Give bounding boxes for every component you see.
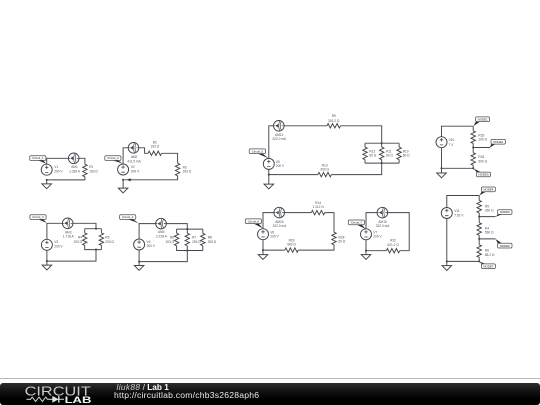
label V10 value xyxy=(449,138,455,147)
junction C2 bottom xyxy=(122,179,124,181)
label R12 value xyxy=(369,149,376,157)
resistor R1 (element body) xyxy=(83,164,87,177)
label R2 value xyxy=(151,141,160,149)
resistor R11 (element body) xyxy=(380,147,384,160)
svg-text:LAB: LAB xyxy=(65,395,92,405)
voltage source V5 xyxy=(263,158,274,169)
resistor R9 (element body) xyxy=(327,124,341,128)
wire C2 bottom xyxy=(123,176,178,188)
net flag NODE5 xyxy=(496,210,513,217)
voltage source V10 xyxy=(436,137,447,148)
net flag NODE4 xyxy=(479,187,495,195)
resistor R5 (element body) xyxy=(99,233,103,246)
net flag Circuit_1 xyxy=(30,156,47,164)
wire C5 top left xyxy=(269,126,327,159)
resistor R6 (element body) xyxy=(477,245,481,258)
junction NA gnd xyxy=(440,167,442,169)
label R5 value xyxy=(105,236,114,244)
resistor R13 (element body) xyxy=(318,172,332,176)
wire C4 top xyxy=(139,224,187,240)
wire C6 top left xyxy=(263,213,311,229)
label R4 value xyxy=(485,227,494,235)
junction C3 top xyxy=(95,228,97,230)
wire C6 top right xyxy=(325,213,334,233)
label V4 value xyxy=(147,240,156,248)
label AM4 value xyxy=(156,230,168,238)
resistor R14 (element body) xyxy=(311,210,325,214)
net flag NODE3 xyxy=(473,168,490,176)
junction C4 bottom bus xyxy=(186,249,188,251)
label V1 value xyxy=(54,165,63,173)
wire C3 bus bottom xyxy=(85,245,102,249)
label V11 value xyxy=(454,209,464,217)
resistor R10 (element body) xyxy=(397,147,401,160)
ground C5 xyxy=(264,184,274,189)
label R33 value xyxy=(478,133,487,141)
label AM3 value xyxy=(63,230,75,238)
wire NB top xyxy=(447,196,479,208)
canvas / footer separator line xyxy=(0,378,540,379)
label R34 value xyxy=(478,155,487,163)
resistor R29 (element body) xyxy=(285,248,299,252)
label R7 value xyxy=(192,236,201,244)
voltage source V6 xyxy=(258,229,269,240)
label AM2 value xyxy=(127,155,141,164)
wire C7 bottom left xyxy=(366,240,386,255)
ground C1 xyxy=(42,184,52,189)
wire C5 bottom right xyxy=(331,163,381,175)
logo diode wire xyxy=(52,398,64,400)
net flag Circuit_6 xyxy=(245,219,262,228)
net flag Circuit_7 xyxy=(348,220,365,229)
junction C5 gnd xyxy=(268,174,270,176)
label V3 value xyxy=(54,240,63,248)
wire C2 top xyxy=(123,148,148,164)
ground C4 xyxy=(134,266,144,271)
label R6 value xyxy=(485,249,495,257)
wire C2 right upper xyxy=(162,153,178,163)
net flag Circuit_4 xyxy=(120,215,139,224)
wire C5 bus top xyxy=(365,143,399,147)
junction NODE6 xyxy=(478,238,480,240)
ground C3 xyxy=(42,265,52,270)
ground NB xyxy=(442,266,452,271)
ammeter AM16 xyxy=(274,207,285,218)
label R3 value xyxy=(183,165,192,173)
voltage source V2 xyxy=(118,164,129,175)
net flag NODE7 xyxy=(479,262,495,269)
ground C6 xyxy=(258,255,268,260)
label V6 value xyxy=(270,230,279,238)
wire C5 bus bottom xyxy=(365,160,399,164)
voltage source V3 xyxy=(41,239,52,250)
resistor R4 (element body) xyxy=(82,233,86,246)
wire C4 bus bottom xyxy=(177,246,203,251)
net flag Circuit_3 xyxy=(30,215,47,223)
junction C4 gnd xyxy=(138,261,140,263)
label AM11 value xyxy=(272,133,287,141)
resistor R28 (element body) xyxy=(332,232,336,245)
ground C2 xyxy=(118,188,128,193)
junction C7 gnd xyxy=(365,250,367,252)
resistor R8 (element body) xyxy=(201,233,205,246)
label R13 value xyxy=(320,163,329,171)
voltage source V7 xyxy=(361,229,372,240)
label V5 value xyxy=(276,160,285,168)
voltage source V1 xyxy=(41,164,52,175)
resistor R34 (element body) xyxy=(471,153,475,166)
net flag Circuit_2 xyxy=(105,156,123,164)
wire C5 top right xyxy=(341,126,382,143)
label R8 value xyxy=(208,236,217,244)
net flag NODE6 xyxy=(496,239,513,248)
junction NODE5 xyxy=(478,216,480,218)
label AM15 value xyxy=(376,220,391,228)
junction NODE7 xyxy=(478,260,480,262)
ammeter AM11 xyxy=(274,121,285,132)
wire C6 bottom right xyxy=(298,245,334,250)
net flag Circuit_5 xyxy=(249,149,268,158)
resistor R12 (element body) xyxy=(363,147,367,160)
wire C5 bottom left xyxy=(269,169,318,184)
junction C3 bottom bus xyxy=(95,249,97,251)
wire NA top xyxy=(442,126,474,137)
resistor R3 (element body) xyxy=(175,163,179,176)
junction NODE3 xyxy=(472,167,474,169)
wire C1 top loop xyxy=(47,158,85,164)
wire C4 bus top xyxy=(177,229,203,233)
ammeter AM15 xyxy=(377,207,388,218)
voltage source V11 xyxy=(441,208,452,219)
junction C1 bottom xyxy=(46,179,48,181)
label AM16 value xyxy=(273,220,288,228)
label R5 value xyxy=(485,204,494,212)
junction NB gnd xyxy=(446,260,448,262)
wire NB node5 xyxy=(479,196,495,217)
label R10 value xyxy=(403,149,410,157)
label R6 value xyxy=(165,236,174,244)
current direction arrow C2 xyxy=(127,178,131,181)
wire C3 bottom xyxy=(47,250,96,266)
label R11 value xyxy=(386,149,393,157)
label V2 value xyxy=(131,165,140,173)
resistor R5 (element body) xyxy=(477,200,481,213)
logo resistor zigzag xyxy=(27,397,65,401)
footer bar xyxy=(0,383,540,405)
byline text xyxy=(114,383,259,399)
wire C7 loop right xyxy=(366,213,409,251)
logo diode bar xyxy=(58,396,60,403)
junction NODE2 xyxy=(472,146,474,148)
ammeter AM2 xyxy=(128,143,139,154)
wire C3 top xyxy=(47,223,96,239)
logo diode triangle xyxy=(52,396,58,403)
resistor R4 (element body) xyxy=(477,223,481,236)
label AM1 value xyxy=(69,165,81,173)
resistor R6 (element body) xyxy=(174,233,178,246)
label R29 value xyxy=(287,238,296,246)
junction C3 gnd xyxy=(46,260,48,262)
wire C3 bus top xyxy=(85,229,102,233)
junction C5 bottom bus xyxy=(381,162,383,164)
ground NA xyxy=(437,173,447,178)
wire NA bottom xyxy=(442,148,474,174)
resistor R2 (element body) xyxy=(148,151,162,155)
junction C6 gnd xyxy=(262,249,264,251)
ammeter AM3 xyxy=(62,218,73,229)
ground C7 xyxy=(361,255,371,260)
resistor R32 (element body) xyxy=(386,249,400,253)
label V7 value xyxy=(373,230,382,238)
label R14 value xyxy=(312,201,324,209)
junction C4 top xyxy=(186,228,188,230)
wire C4 bottom xyxy=(139,250,187,266)
label R9 value xyxy=(328,114,340,123)
voltage source V4 xyxy=(134,239,145,250)
net flag NODE2 xyxy=(490,139,506,147)
net flag NODE1 xyxy=(473,117,489,126)
label R28 value xyxy=(339,236,346,244)
resistor R33 (element body) xyxy=(471,131,475,144)
resistor R7 (element body) xyxy=(185,233,189,246)
label R32 value xyxy=(387,239,399,247)
label R4 value xyxy=(73,236,82,244)
wire NB node6 xyxy=(479,217,495,239)
wire C6 bottom left xyxy=(263,240,285,255)
ammeter AM1 xyxy=(68,153,79,164)
junction C5 top xyxy=(381,142,383,144)
label R1 value xyxy=(89,165,98,173)
wire NB bottom xyxy=(447,218,479,265)
wire NA mid xyxy=(473,126,490,147)
ammeter AM4 xyxy=(156,218,167,229)
wire C1 bottom loop xyxy=(47,177,85,184)
